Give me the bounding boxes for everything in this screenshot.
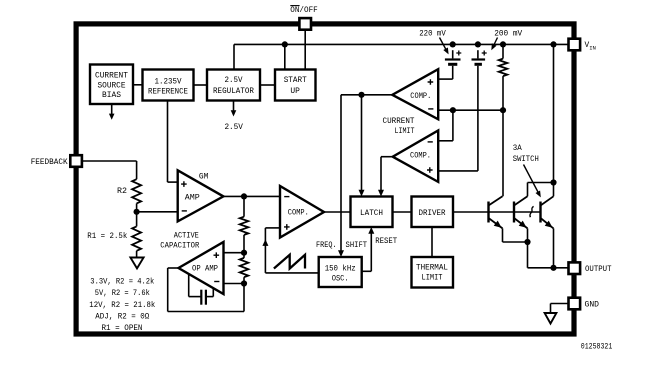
svg-text:FREQ.: FREQ.: [316, 242, 337, 250]
svg-text:GND: GND: [585, 301, 600, 309]
wire tap to opamp minus: [224, 283, 245, 285]
block 1.235V REFERENCE: [143, 70, 194, 101]
wire REG to START UP: [260, 84, 275, 86]
node comp1 out split: [358, 92, 364, 98]
wire Q3 emitter down: [553, 228, 555, 267]
node feedback divider: [134, 209, 140, 215]
label resistor value table: [89, 279, 155, 334]
wire reset: [362, 232, 372, 271]
wire comp2 to latch: [380, 157, 382, 192]
svg-text:1.235V: 1.235V: [155, 79, 182, 87]
label GND: [585, 301, 600, 309]
arrow current source bias output: [109, 104, 115, 120]
transistor Q3: [541, 196, 554, 228]
svg-text:150 kHz: 150 kHz: [325, 265, 356, 273]
node rail 220mV: [450, 41, 456, 47]
label CURRENT LIMIT: [383, 118, 415, 136]
svg-text:R2: R2: [117, 188, 127, 196]
svg-text:ACTIVE: ACTIVE: [174, 232, 199, 240]
wire freq shift: [340, 95, 342, 252]
svg-text:CURRENT: CURRENT: [383, 118, 415, 126]
svg-text:COMP.: COMP.: [410, 153, 431, 161]
wire driver to bases: [453, 211, 541, 213]
wire comp1 output: [341, 94, 392, 96]
block THERMAL LIMIT: [412, 257, 454, 288]
resistor current sense: [499, 44, 508, 110]
block 150kHz OSC: [319, 257, 362, 287]
svg-text:DRIVER: DRIVER: [419, 210, 446, 218]
node rail 200mV: [475, 41, 481, 47]
svg-text:RESET: RESET: [375, 238, 397, 246]
svg-text:3.3V, R2 = 4.2k: 3.3V, R2 = 4.2k: [90, 279, 154, 287]
transistor Q1: [489, 196, 503, 228]
arrow 220mV pointer: [440, 38, 449, 55]
wire comp bottom: [243, 277, 245, 311]
wire REF to REG: [194, 84, 208, 86]
wire Q1 collector: [502, 110, 504, 196]
source 220 mV battery: [445, 50, 461, 79]
wire R1 to open ground: [136, 251, 138, 258]
node rail resistor: [500, 41, 506, 47]
pin pad FEEDBACK: [70, 155, 82, 167]
comparator COMP current-limit lower: [393, 131, 439, 182]
label 2.5V node: [224, 124, 243, 132]
svg-text:CAPACITOR: CAPACITOR: [160, 243, 199, 251]
wire tap to opamp plus: [224, 252, 245, 254]
wire GM output to COMP minus: [223, 195, 280, 197]
op-amp OP AMP: [179, 242, 224, 294]
wire V_IN rail: [234, 44, 569, 69]
node comp1 minus b: [500, 107, 506, 113]
wire comp1 to latch: [361, 95, 363, 192]
label 200 mV: [494, 30, 522, 38]
label FEEDBACK: [31, 159, 68, 167]
svg-text:220 mV: 220 mV: [419, 30, 446, 38]
svg-text:SHIFT: SHIFT: [346, 242, 368, 250]
wire collectors to VIN rail: [553, 44, 555, 182]
label RESET: [375, 238, 397, 246]
node GM output: [241, 193, 247, 199]
label 220 mV: [419, 30, 446, 38]
svg-text:5V, R2 = 7.6k: 5V, R2 = 7.6k: [95, 290, 150, 298]
arrow sawtooth up: [262, 239, 268, 246]
arrow 2.5V output: [231, 101, 237, 117]
node emitter junction: [524, 239, 530, 245]
svg-text:2.5V: 2.5V: [225, 77, 243, 85]
comparator COMP main: [280, 186, 324, 238]
arrow 200mV pointer: [491, 38, 497, 51]
svg-text:START: START: [284, 77, 307, 85]
label FREQ SHIFT: [316, 242, 367, 250]
wire REF to GM plus: [168, 101, 178, 183]
IC boundary (thick border): [76, 24, 574, 334]
svg-text:SOURCE: SOURCE: [98, 82, 126, 90]
wire comp1 plus input: [438, 78, 453, 80]
resistor comp upper: [240, 217, 249, 235]
resistor R2: [132, 179, 141, 203]
base break squiggle: [530, 206, 534, 217]
node opamp minus tap: [241, 280, 247, 286]
svg-text:LIMIT: LIMIT: [422, 274, 443, 282]
wire opamp feedback loop: [168, 268, 244, 312]
label VIN: [585, 42, 596, 51]
block LATCH: [351, 197, 393, 228]
op-amp GM AMP: [178, 170, 224, 221]
svg-text:R1 = 2.5k: R1 = 2.5k: [87, 233, 127, 241]
svg-text:OSC.: OSC.: [332, 276, 349, 284]
svg-text:OUTPUT: OUTPUT: [585, 266, 612, 274]
pin pad VIN: [569, 39, 581, 51]
wire divider to GM minus: [137, 211, 178, 213]
wire comp2 plus input: [438, 170, 478, 172]
wire GM out down: [243, 196, 245, 216]
svg-text:ADJ, R2 = 0Ω: ADJ, R2 = 0Ω: [95, 314, 149, 322]
arrow reset into latch: [368, 227, 374, 234]
wire osc to COMP plus: [265, 228, 318, 273]
wire feedback to R2: [82, 161, 137, 179]
wire LATCH to DRIVER: [393, 211, 412, 213]
svg-text:200 mV: 200 mV: [494, 30, 522, 38]
label document number: [581, 344, 613, 352]
arrow freq shift into osc: [338, 250, 344, 257]
svg-text:01258321: 01258321: [581, 344, 613, 352]
wire CSB to REF: [133, 84, 143, 86]
label OUTPUT: [585, 266, 612, 274]
wire Q3 collector: [553, 183, 555, 197]
node collector junction: [550, 179, 556, 185]
svg-text:COMP.: COMP.: [410, 93, 431, 101]
svg-text:3A: 3A: [513, 145, 522, 153]
svg-text:2.5V: 2.5V: [224, 124, 243, 132]
pin pad ON/OFF: [299, 18, 311, 30]
wire comp1 minus line: [438, 109, 503, 111]
label ACTIVE CAPACITOR: [160, 232, 199, 250]
svg-text:LIMIT: LIMIT: [395, 128, 415, 136]
arrow into latch 1: [359, 190, 365, 197]
svg-text:UP: UP: [290, 88, 300, 96]
svg-text:GM: GM: [199, 174, 209, 182]
source 200 mV battery: [472, 50, 487, 171]
resistor R1: [132, 226, 141, 250]
svg-text:FEEDBACK: FEEDBACK: [31, 159, 68, 167]
svg-text:OP AMP: OP AMP: [192, 266, 218, 274]
wire GND pin to ground: [551, 304, 570, 314]
node output junction: [550, 265, 556, 271]
comparator COMP current-limit upper: [392, 69, 438, 119]
label 3A SWITCH: [513, 145, 539, 164]
wire Q2 collector: [527, 183, 529, 197]
wire ON/OFF to START UP: [304, 29, 306, 69]
svg-text:SWITCH: SWITCH: [513, 156, 539, 164]
node opamp plus tap: [241, 250, 247, 256]
wire emitters to output: [528, 267, 570, 269]
block DRIVER: [412, 197, 454, 228]
node rail collector: [550, 41, 556, 47]
arrow 3A switch pointer: [524, 165, 541, 198]
svg-text:REFERENCE: REFERENCE: [148, 88, 188, 96]
svg-text:REGULATOR: REGULATOR: [213, 88, 254, 96]
wire Q2 emitter down: [527, 228, 529, 267]
wire rail to START UP: [284, 44, 286, 69]
ground open triangle (GND): [545, 313, 557, 324]
ground open triangle (R1): [130, 258, 143, 269]
wire comp mid: [243, 235, 245, 258]
block START UP: [275, 70, 316, 101]
wire Q1 emitter: [503, 228, 528, 242]
wire comp2 output: [381, 156, 393, 158]
svg-text:COMP.: COMP.: [288, 210, 309, 218]
capacitor active cap: [189, 274, 214, 305]
pin pad GND: [569, 298, 581, 310]
block 2.5V REGULATOR: [207, 70, 260, 101]
node comp1 minus a: [450, 107, 456, 113]
wire comp2 minus riser: [438, 110, 453, 141]
wire COMP out to LATCH: [324, 211, 351, 213]
svg-text:VIN: VIN: [585, 42, 596, 51]
wire DRIVER to THERMAL: [431, 227, 433, 257]
svg-text:12V, R2 = 21.8k: 12V, R2 = 21.8k: [89, 302, 155, 310]
label R1 = 2.5k: [87, 233, 127, 241]
label ON/OFF: [290, 6, 318, 15]
svg-text:AMP: AMP: [185, 195, 200, 203]
block CURRENT SOURCE BIAS: [90, 65, 133, 105]
resistor comp lower: [240, 258, 249, 277]
transistor Q2: [514, 196, 528, 228]
svg-text:ON/OFF: ON/OFF: [290, 7, 318, 15]
svg-text:R1 = OPEN: R1 = OPEN: [102, 325, 143, 333]
svg-text:BIAS: BIAS: [102, 92, 121, 100]
wire collector tie: [528, 182, 554, 184]
node rail-startup junction: [282, 41, 288, 47]
pin pad OUTPUT: [569, 262, 581, 274]
wire R2 to R1: [136, 203, 138, 226]
sawtooth waveform icon: [274, 255, 305, 269]
svg-text:CURRENT: CURRENT: [95, 73, 128, 81]
arrow into latch 2: [378, 190, 384, 197]
svg-text:LATCH: LATCH: [360, 210, 383, 218]
svg-text:THERMAL: THERMAL: [416, 264, 448, 272]
label R2: [117, 188, 127, 196]
